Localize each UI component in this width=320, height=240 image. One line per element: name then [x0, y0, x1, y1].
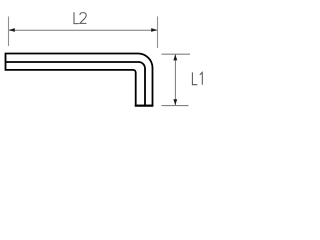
extension tick bottom (L1)	[162, 105, 189, 107]
extension tick top (L1)	[162, 53, 191, 55]
hex key bottom end cap	[135, 105, 154, 107]
dimension line L1	[174, 54, 176, 105]
arrowhead down (L1)	[173, 99, 177, 105]
hex key middle edge line	[6, 62, 146, 106]
arrowhead left (L2)	[9, 28, 15, 32]
extension line right (L2)	[157, 17, 159, 49]
hex key outer contour	[6, 54, 153, 106]
label L2	[74, 12, 87, 23]
extension line left (L2)	[8, 17, 10, 47]
arrowhead up (L1)	[173, 54, 177, 60]
label L1	[192, 72, 202, 84]
dimension line L2	[9, 29, 157, 31]
arrowhead right (L2)	[151, 28, 157, 32]
